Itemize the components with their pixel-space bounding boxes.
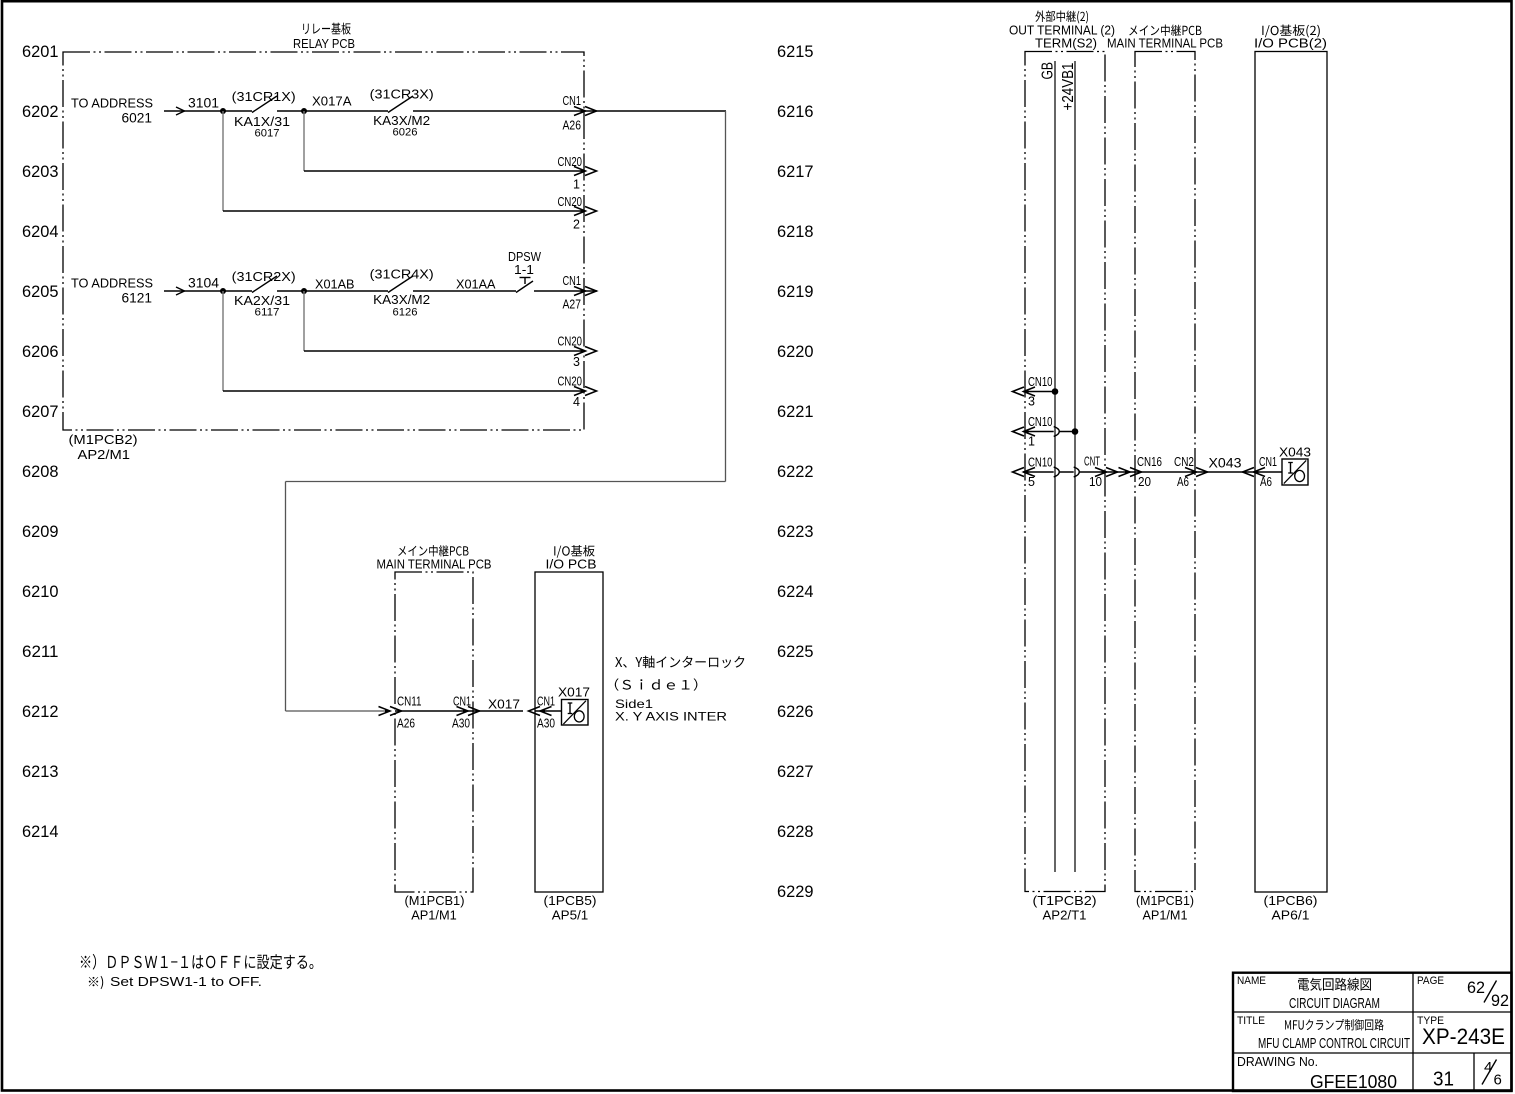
label pin 1	[573, 178, 580, 192]
label pin 5 (CN10)	[1028, 475, 1035, 489]
svg-text:+24VB1: +24VB1	[1060, 62, 1077, 110]
svg-text:A26: A26	[397, 717, 415, 731]
svg-text:I/O PCB(2): I/O PCB(2)	[1254, 37, 1327, 51]
wire rung CN20 pin2	[223, 210, 585, 212]
net label X01AB	[315, 277, 355, 292]
label (M1PCB2) AP2/M1	[69, 432, 138, 462]
svg-text:6211: 6211	[22, 643, 59, 661]
svg-text:6210: 6210	[22, 583, 59, 601]
title block TYPE cell	[1417, 1015, 1505, 1049]
svg-text:4: 4	[573, 395, 580, 409]
svg-text:MAIN TERMINAL PCB: MAIN TERMINAL PCB	[377, 558, 492, 572]
wire drop from 3104 node	[222, 291, 224, 391]
svg-text:6215: 6215	[777, 43, 814, 61]
connector CN20 pin 4 exit arrow	[574, 387, 597, 396]
svg-text:TO ADDRESS: TO ADDRESS	[71, 276, 153, 291]
wire route CN1/A26 down to 6208	[725, 111, 727, 482]
main terminal PCB box (M1PCB1)	[395, 572, 473, 892]
svg-text:X043: X043	[1279, 445, 1311, 460]
label CN1 (main term)	[453, 695, 471, 709]
wire rung CN20 pin4	[223, 390, 585, 392]
node junction dot 3101-branch	[220, 108, 226, 114]
svg-text:AP6/1: AP6/1	[1272, 908, 1310, 923]
svg-text:I/O PCB: I/O PCB	[546, 558, 597, 572]
svg-text:6221: 6221	[777, 403, 814, 421]
wire rung 6202 to CN1	[413, 110, 726, 112]
svg-text:62: 62	[1467, 978, 1485, 997]
label (M1PCB1) AP1/M1	[405, 893, 465, 923]
out terminal box (T1PCB2)	[1025, 52, 1105, 892]
svg-text:3101: 3101	[188, 96, 219, 111]
svg-text:6216: 6216	[777, 103, 814, 121]
svg-text:6207: 6207	[22, 403, 59, 421]
svg-text:RELAY PCB: RELAY PCB	[293, 36, 355, 51]
svg-text:92: 92	[1491, 991, 1509, 1010]
svg-text:CN1: CN1	[563, 274, 582, 288]
svg-text:6220: 6220	[777, 343, 814, 361]
svg-text:CN10: CN10	[1028, 456, 1053, 470]
svg-text:3: 3	[1028, 395, 1035, 409]
label A6 (CN2)	[1177, 475, 1189, 489]
power rail +24VB1	[1060, 61, 1077, 872]
svg-text:6214: 6214	[22, 823, 59, 841]
svg-text:6225: 6225	[777, 643, 814, 661]
svg-text:DRAWING No.: DRAWING No.	[1237, 1054, 1318, 1069]
svg-text:(31CR2X): (31CR2X)	[232, 269, 296, 284]
wire label 3104	[188, 276, 219, 291]
label (T1PCB2) AP2/T1	[1033, 893, 1097, 923]
label CN1 (I/O PCB 2)	[1259, 455, 1277, 469]
label 6026	[393, 127, 418, 139]
svg-text:6017: 6017	[255, 128, 280, 140]
svg-text:(1PCB5): (1PCB5)	[544, 893, 597, 908]
title block sheet 31	[1433, 1069, 1454, 1091]
wire route into CN11	[286, 710, 391, 712]
svg-text:CN16: CN16	[1137, 455, 1162, 469]
label 6117	[255, 307, 280, 319]
label X043 (module)	[1279, 445, 1311, 460]
svg-text:(M1PCB1): (M1PCB1)	[1136, 893, 1194, 908]
label TO ADDRESS 6021	[71, 96, 153, 126]
svg-text:CN1: CN1	[1259, 455, 1277, 469]
svg-text:PAGE: PAGE	[1417, 975, 1444, 987]
svg-text:6204: 6204	[22, 223, 59, 241]
label A6 (I/O PCB 2)	[1260, 475, 1272, 489]
label 1-1	[514, 262, 534, 277]
connector CN20 pin 2 exit arrow	[574, 207, 597, 216]
connector CN1 pin A30 arrow into I/O PCB	[529, 707, 552, 716]
svg-text:6213: 6213	[22, 763, 59, 781]
title block NAME cell	[1237, 975, 1380, 1012]
label pin 1 (CN10)	[1028, 435, 1035, 449]
svg-text:10: 10	[1089, 475, 1102, 489]
node dot +24VB1 tap	[1072, 428, 1079, 435]
label CN10 (pin5)	[1028, 456, 1053, 470]
node junction dot X01AB	[301, 288, 307, 294]
label A26	[563, 119, 582, 133]
label I/O PCB	[546, 545, 597, 572]
contact (31CR4X) KA3X/M2 relay contact	[388, 276, 413, 293]
label 6126	[393, 307, 418, 319]
connector CN20 pin 3 exit arrow	[574, 347, 597, 356]
title block PAGE cell	[1417, 975, 1509, 1010]
label pin 4	[573, 395, 580, 409]
svg-text:X017: X017	[488, 697, 520, 712]
wire drop from X017A node	[303, 111, 305, 171]
label CNT	[1084, 455, 1100, 469]
svg-text:CN1: CN1	[453, 695, 471, 709]
svg-text:1: 1	[1028, 435, 1035, 449]
svg-text:6222: 6222	[777, 463, 814, 481]
svg-text:AP2/T1: AP2/T1	[1043, 908, 1087, 923]
svg-text:(M1PCB1): (M1PCB1)	[405, 893, 465, 908]
svg-text:X017A: X017A	[312, 94, 352, 109]
label (31CR3X)	[370, 87, 434, 102]
svg-text:TITLE: TITLE	[1237, 1015, 1265, 1027]
svg-text:CN1: CN1	[563, 94, 582, 108]
svg-text:OUT TERMINAL (2): OUT TERMINAL (2)	[1009, 23, 1115, 37]
svg-text:(M1PCB2): (M1PCB2)	[69, 432, 138, 447]
node junction dot X017A	[301, 108, 307, 114]
connector CN10 pin 5 arrow	[1013, 468, 1036, 477]
svg-text:6: 6	[1494, 1072, 1502, 1089]
label CN1	[563, 94, 582, 108]
svg-text:6217: 6217	[777, 163, 814, 181]
wire between contacts rung 6205	[277, 290, 388, 292]
svg-text:5: 5	[1028, 475, 1035, 489]
connector CN1 pin A6 arrow into I/O PCB(2)	[1243, 468, 1266, 477]
label A26 (CN11)	[397, 717, 415, 731]
label I/O PCB(2)	[1254, 25, 1327, 51]
label DPSW	[508, 249, 542, 264]
note DPSW1-1 japanese	[81, 954, 314, 970]
svg-text:CIRCUIT DIAGRAM: CIRCUIT DIAGRAM	[1289, 995, 1380, 1012]
net label X01AA	[456, 277, 496, 292]
svg-text:MFU CLAMP CONTROL CIRCUIT: MFU CLAMP CONTROL CIRCUIT	[1258, 1035, 1410, 1052]
label pin 2	[573, 218, 580, 232]
label main terminal PCB	[377, 545, 492, 572]
label pin 3	[573, 355, 580, 369]
svg-text:(31CR4X): (31CR4X)	[370, 267, 434, 282]
I/O PCB(2) box (1PCB6)	[1255, 52, 1327, 893]
svg-text:A6: A6	[1260, 475, 1272, 489]
svg-text:6208: 6208	[22, 463, 59, 481]
note X Y axis interlock	[615, 656, 745, 724]
svg-text:XP-243E: XP-243E	[1422, 1024, 1505, 1049]
left line-number column 6201-6214	[22, 43, 59, 841]
svg-text:6021: 6021	[122, 111, 153, 126]
svg-text:6224: 6224	[777, 583, 814, 601]
svg-text:20: 20	[1138, 475, 1151, 489]
right line-number column 6215-6229	[777, 43, 814, 901]
svg-text:KA3X/M2: KA3X/M2	[373, 292, 430, 307]
node dot GB tap	[1052, 388, 1059, 395]
svg-text:6209: 6209	[22, 523, 59, 541]
svg-text:31: 31	[1433, 1069, 1454, 1091]
svg-text:CN10: CN10	[1028, 375, 1053, 389]
svg-text:6201: 6201	[22, 43, 59, 61]
crossover hop at +24VB1 (pin5)	[1074, 467, 1080, 477]
svg-text:X01AB: X01AB	[315, 277, 355, 292]
node junction dot 3104-branch	[220, 288, 226, 294]
crossover hop at GB (pin5)	[1054, 467, 1060, 477]
title block TITLE cell	[1237, 1015, 1410, 1052]
label KA3X/M2 (2)	[373, 292, 430, 307]
svg-text:AP1/M1: AP1/M1	[1143, 908, 1188, 923]
svg-text:(31CR1X): (31CR1X)	[232, 89, 296, 104]
svg-text:GB: GB	[1040, 62, 1057, 80]
svg-text:6117: 6117	[255, 307, 280, 319]
svg-text:A30: A30	[452, 717, 470, 731]
svg-text:2: 2	[573, 218, 580, 232]
svg-text:TO ADDRESS: TO ADDRESS	[71, 96, 153, 111]
svg-text:1-1: 1-1	[514, 262, 534, 277]
svg-text:MAIN TERMINAL PCB: MAIN TERMINAL PCB	[1107, 37, 1223, 51]
svg-text:CN1: CN1	[537, 695, 555, 709]
label pin 10 (CNT)	[1089, 475, 1102, 489]
label CN20 (pin2)	[558, 195, 583, 209]
connector CN11 pin A26 entry arrow	[379, 707, 402, 716]
wire rung 6205 from address input	[164, 287, 252, 295]
connector CN16 pin 20 entry arrow	[1119, 468, 1142, 477]
svg-text:GFEE1080: GFEE1080	[1310, 1071, 1397, 1092]
svg-text:(31CR3X): (31CR3X)	[370, 87, 434, 102]
relay PCB enclosure box (M1PCB2)	[63, 52, 584, 430]
svg-text:6121: 6121	[122, 291, 153, 306]
wire CN10 pin1 to +24VB1	[1023, 431, 1075, 433]
wire CN10 pin5 run	[1023, 471, 1282, 473]
label X017 (module)	[558, 685, 590, 700]
svg-text:CN11: CN11	[397, 695, 422, 709]
wire drop from X01AB node	[303, 291, 305, 351]
label (1PCB6) AP6/1	[1264, 893, 1318, 923]
main terminal PCB(2) box (M1PCB1)	[1135, 52, 1195, 892]
contact (31CR1X) KA1X/31 relay contact	[252, 96, 277, 113]
label A30 (main term)	[452, 717, 470, 731]
title block sheet 4/6	[1482, 1059, 1502, 1089]
label CN1 (A27)	[563, 274, 582, 288]
svg-text:TERM(S2): TERM(S2)	[1035, 37, 1097, 51]
svg-text:CNT: CNT	[1084, 455, 1100, 469]
title block DRAWING No cell	[1237, 1054, 1397, 1092]
label CN11	[397, 695, 422, 709]
svg-text:6219: 6219	[777, 283, 814, 301]
svg-text:A27: A27	[563, 298, 582, 312]
svg-text:6126: 6126	[393, 307, 418, 319]
svg-text:AP5/1: AP5/1	[552, 908, 589, 923]
svg-text:NAME: NAME	[1237, 975, 1266, 987]
connector CN1 pin A27 exit arrow	[574, 287, 597, 296]
svg-text:CN20: CN20	[558, 155, 583, 169]
label CN16	[1137, 455, 1162, 469]
wire to X017 I/O module	[535, 710, 561, 712]
svg-text:CN20: CN20	[558, 375, 583, 389]
label (M1PCB1) AP1/M1 (2)	[1136, 893, 1194, 923]
switch DPSW 1-1	[516, 278, 533, 293]
net label X043 harness	[1209, 456, 1242, 471]
label (1PCB5) AP5/1	[544, 893, 597, 923]
label (31CR2X)	[232, 269, 296, 284]
svg-text:X017: X017	[558, 685, 590, 700]
wire rung CN20 pin3	[304, 350, 585, 352]
wire label 3101	[188, 96, 219, 111]
svg-text:3: 3	[573, 355, 580, 369]
label CN20 (pin3)	[558, 335, 583, 349]
label KA1X/31	[234, 114, 290, 129]
wire CN10 pin3 to GB	[1023, 391, 1055, 393]
wire between boxes X017	[473, 710, 523, 712]
label (31CR1X)	[232, 89, 296, 104]
svg-text:CN2: CN2	[1174, 455, 1194, 469]
svg-text:6227: 6227	[777, 763, 814, 781]
svg-text:6229: 6229	[777, 883, 814, 901]
svg-text:6202: 6202	[22, 103, 59, 121]
svg-text:X01AA: X01AA	[456, 277, 496, 292]
label relay PCB	[293, 23, 355, 51]
svg-text:CN20: CN20	[558, 195, 583, 209]
wire drop from 3101 node	[222, 111, 224, 211]
label TO ADDRESS 6121	[71, 276, 153, 306]
label KA3X/M2	[373, 113, 430, 128]
label pin 3 (CN10)	[1028, 395, 1035, 409]
label out terminal(2)	[1009, 11, 1115, 51]
I/O PCB box (1PCB5)	[535, 572, 603, 892]
svg-text:6218: 6218	[777, 223, 814, 241]
wire to DPSW	[413, 290, 516, 292]
connector CN20 pin 1 exit arrow	[574, 167, 597, 176]
label CN20 (pin1)	[558, 155, 583, 169]
svg-text:X. Y AXIS INTER: X. Y AXIS INTER	[615, 710, 727, 724]
svg-text:AP2/M1: AP2/M1	[78, 447, 131, 462]
svg-text:6026: 6026	[393, 127, 418, 139]
note DPSW1-1 english	[89, 975, 262, 989]
label (31CR4X)	[370, 267, 434, 282]
wire route 6208 horizontal	[286, 481, 726, 483]
svg-text:X043: X043	[1209, 456, 1242, 471]
wire rung CN20 pin1	[304, 170, 585, 172]
svg-text:6203: 6203	[22, 163, 59, 181]
svg-text:1: 1	[573, 178, 580, 192]
wire DPSW to CN1	[534, 290, 597, 292]
svg-text:A6: A6	[1177, 475, 1189, 489]
label A27	[563, 298, 582, 312]
svg-text:AP1/M1: AP1/M1	[411, 908, 457, 923]
svg-text:Set DPSW1-1 to OFF.: Set DPSW1-1 to OFF.	[110, 975, 262, 989]
label A30 (I/O PCB)	[537, 717, 555, 731]
wire route down to 6212	[285, 482, 287, 712]
title block frame	[1233, 973, 1512, 1091]
svg-text:6228: 6228	[777, 823, 814, 841]
wire rung 6202 from address input	[164, 107, 252, 115]
label CN1 (I/O PCB)	[537, 695, 555, 709]
svg-text:6212: 6212	[22, 703, 59, 721]
connector CN10 pin 1 arrow	[1013, 427, 1036, 436]
label CN2	[1174, 455, 1194, 469]
svg-text:6206: 6206	[22, 343, 59, 361]
svg-text:3104: 3104	[188, 276, 219, 291]
crossover hop at GB	[1054, 427, 1060, 437]
label CN20 (pin4)	[558, 375, 583, 389]
label CN10 (pin3)	[1028, 375, 1053, 389]
label KA2X/31	[234, 293, 290, 308]
svg-text:CN20: CN20	[558, 335, 583, 349]
svg-text:CN10: CN10	[1028, 415, 1053, 429]
power rail GB	[1040, 61, 1057, 872]
wire inside main terminal box 6212	[395, 710, 473, 712]
label pin 20 (CN16)	[1138, 475, 1151, 489]
connector CNT pin 10 exit arrow	[1095, 468, 1118, 477]
wire between contacts rung 6202	[277, 110, 388, 112]
net label X017A	[312, 94, 352, 109]
contact (31CR2X) KA2X/31 relay contact	[252, 276, 277, 293]
contact (31CR3X) KA3X/M2 relay contact	[388, 96, 413, 113]
svg-text:6223: 6223	[777, 523, 814, 541]
connector CN10 pin 3 arrow	[1013, 387, 1036, 396]
connector CN1 pin A30 exit arrow (main terminal)	[457, 707, 480, 716]
label 6017	[255, 128, 280, 140]
label main terminal PCB(2)	[1107, 25, 1223, 51]
svg-text:6226: 6226	[777, 703, 814, 721]
I/O module X017 symbol	[562, 700, 589, 726]
svg-text:6205: 6205	[22, 283, 59, 301]
svg-text:(T1PCB2): (T1PCB2)	[1033, 893, 1097, 908]
svg-text:A30: A30	[537, 717, 555, 731]
net label X017 harness	[488, 697, 520, 712]
svg-text:A26: A26	[563, 119, 582, 133]
I/O module X043 symbol	[1282, 459, 1308, 485]
connector CN1 pin A26 exit arrow	[574, 107, 597, 116]
connector CN2 pin A6 exit arrow	[1185, 468, 1208, 477]
label CN10 (pin1)	[1028, 415, 1053, 429]
svg-text:(1PCB6): (1PCB6)	[1264, 893, 1318, 908]
